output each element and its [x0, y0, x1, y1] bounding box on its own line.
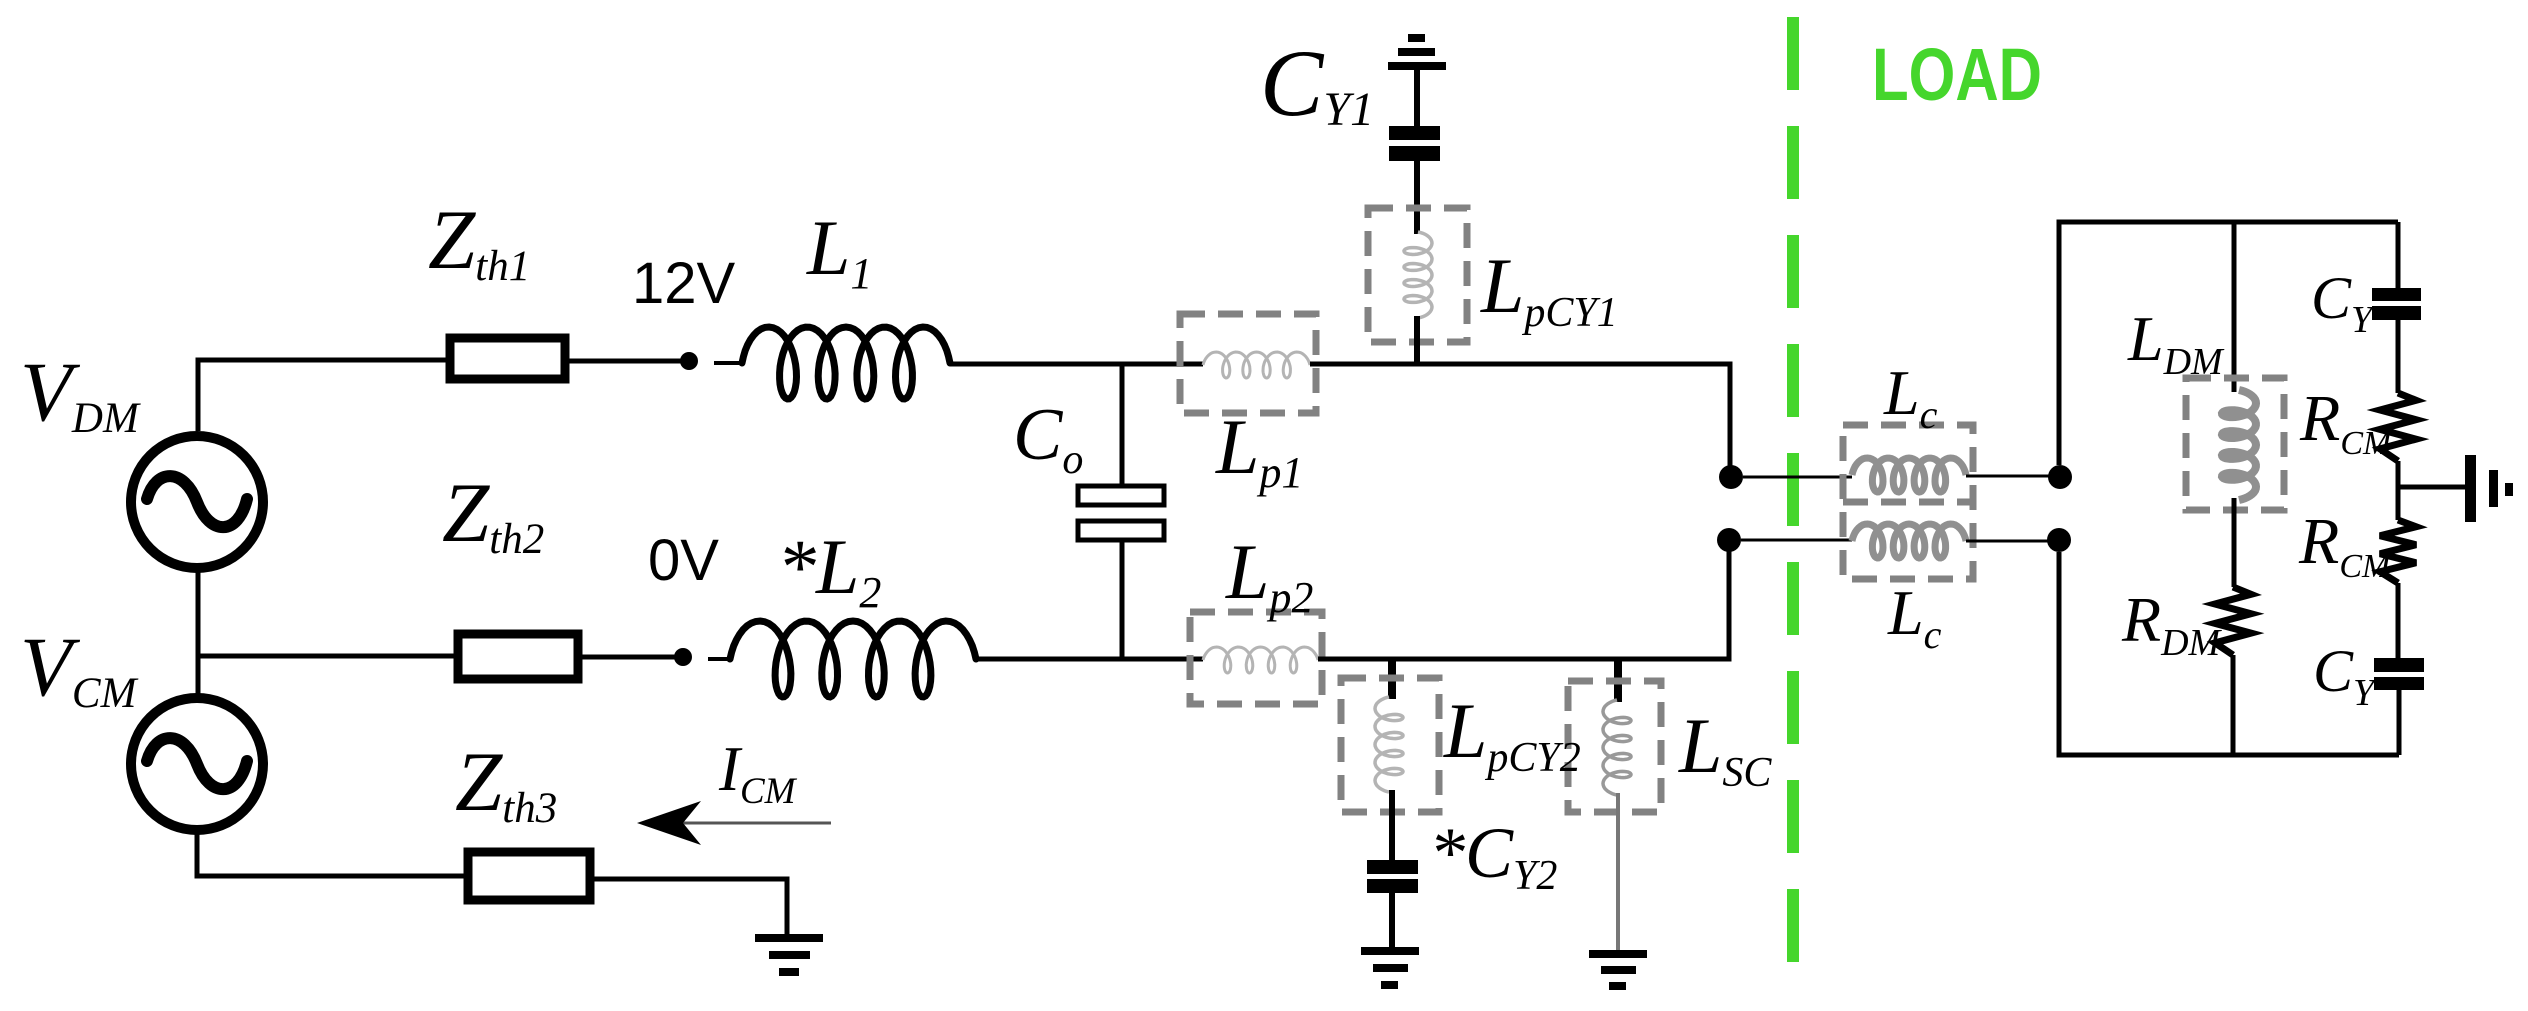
- svg-text:0V: 0V: [648, 528, 719, 593]
- svg-text:LOAD: LOAD: [1872, 33, 2042, 116]
- svg-text:12V: 12V: [632, 251, 736, 316]
